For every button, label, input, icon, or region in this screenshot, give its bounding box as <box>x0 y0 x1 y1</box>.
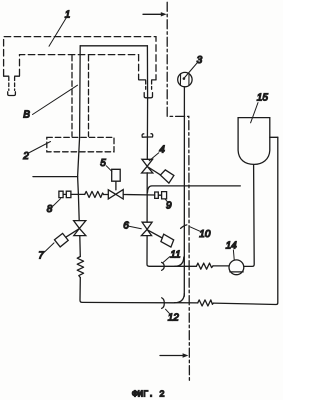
leader 10 <box>190 227 200 231</box>
valve 7 <box>74 221 86 236</box>
centerline upper (dash-dot) <box>167 2 189 381</box>
svg-text:9: 9 <box>166 201 172 212</box>
leader 14 <box>232 250 235 260</box>
actuator square 4 <box>160 170 174 183</box>
leader 4 <box>149 153 159 161</box>
svg-text:11: 11 <box>170 250 180 261</box>
svg-text:3: 3 <box>197 55 203 66</box>
pilot box of valve 5 <box>112 169 121 181</box>
spring S3 <box>198 300 214 306</box>
tank side stub <box>270 136 278 138</box>
leader 5 <box>106 166 112 172</box>
left nozzle cap <box>8 92 16 96</box>
coupling 9 <box>155 192 167 199</box>
gauge drop line <box>183 87 185 296</box>
svg-text:4: 4 <box>159 145 165 156</box>
valve 4 <box>142 159 153 173</box>
svg-text:7: 7 <box>38 251 44 262</box>
tank 15 <box>238 118 270 165</box>
svg-text:15: 15 <box>257 93 269 104</box>
left nozzle stem (dashed) <box>9 77 15 90</box>
svg-text:8: 8 <box>47 204 53 215</box>
leader 15 <box>251 103 258 123</box>
elbow fillet at bottom row <box>175 294 185 303</box>
flow arrow top <box>143 13 162 15</box>
leader 3 with dot <box>184 63 197 79</box>
spring S2 <box>196 263 213 269</box>
bottom row right <box>175 137 278 304</box>
svg-text:2: 2 <box>22 151 29 162</box>
dashed box 2 <box>47 137 114 151</box>
actuator link of valve 6 <box>147 230 162 238</box>
actuator square 7 <box>55 233 69 247</box>
machine outline 1 (dashed enclosure) <box>4 37 156 80</box>
pipe B horizontal (solid, inside machine) <box>80 45 147 47</box>
inner dashed verticals of machine <box>72 55 89 136</box>
pump 14 <box>229 260 244 275</box>
union bracket 11 <box>162 262 165 270</box>
machine outline 1 bottom edges <box>4 75 20 77</box>
leader 11 <box>163 257 170 263</box>
pump to tank vertical <box>244 165 254 267</box>
leader 6 <box>129 226 141 229</box>
elbow fillet at row 266 <box>175 257 184 266</box>
leader 8 <box>53 199 61 206</box>
pilot stem <box>115 181 117 190</box>
middle row pipe <box>71 193 155 196</box>
vertical below valve 6 with elbow to row 266 <box>147 236 196 267</box>
spring S4 (vertical) <box>77 257 83 278</box>
svg-text:5: 5 <box>100 158 106 169</box>
svg-text:B: B <box>23 110 30 121</box>
flange union at node (fork) <box>142 134 153 138</box>
right nozzle stem (dashed) <box>146 81 152 90</box>
pipe B right vertical into stem <box>146 46 148 98</box>
actuator square 6 <box>161 234 174 247</box>
pipe below valve 7 <box>79 236 82 257</box>
svg-text:14: 14 <box>226 240 238 251</box>
leader 2 <box>30 142 51 153</box>
flow arrow bottom <box>160 355 183 357</box>
svg-text:ФИГ. 2: ФИГ. 2 <box>132 389 164 399</box>
main center vertical (stem to valve 4) <box>146 98 148 160</box>
gauge 3 <box>178 72 192 86</box>
actuator link of valve 4 <box>148 167 161 175</box>
valve 6 <box>141 222 152 235</box>
row 266 continuation <box>213 265 229 267</box>
leader B <box>33 85 78 114</box>
stub line to left vertical <box>33 176 78 178</box>
vertical between valve 4 and valve 6 <box>146 173 148 222</box>
svg-text:12: 12 <box>168 313 180 324</box>
coupling 8 <box>59 191 71 197</box>
union tick 10 <box>181 225 187 229</box>
right nozzle cap <box>144 93 152 98</box>
leader 9 <box>165 199 168 202</box>
svg-text:10: 10 <box>199 229 211 240</box>
right structure bottom edges <box>139 79 156 81</box>
branch elbow to tank line <box>148 186 241 192</box>
union bracket 12 <box>162 298 165 309</box>
leader 7 <box>45 243 55 252</box>
pipe B left vertical down through box 2 to middle row <box>78 46 81 221</box>
svg-text:6: 6 <box>123 221 129 232</box>
actuator link of valve 7 <box>66 229 79 237</box>
leader 1 <box>49 18 66 46</box>
spring S1 <box>85 191 104 197</box>
valve 5 <box>108 190 123 199</box>
leader 12 <box>166 309 170 313</box>
pipe to bottom row elbow <box>80 278 175 303</box>
